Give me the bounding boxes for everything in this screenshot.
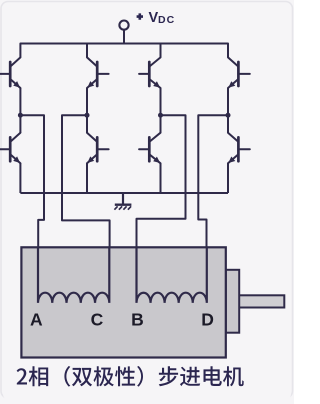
wire leg L1 mid vertical: [19, 88, 21, 133]
node L2: [85, 113, 90, 118]
wire top VDC rail: [20, 44, 228, 58]
transistor Q6: [87, 133, 109, 164]
motor shaft: [239, 295, 284, 307]
motor body: [21, 247, 225, 357]
transistor Q5: [0, 133, 20, 164]
wire leg R2 mid vertical: [227, 88, 229, 133]
transistor Q1: [0, 57, 20, 88]
transistor Q3: [139, 57, 160, 88]
node L1: [18, 113, 23, 118]
wire leg L2 mid vertical: [86, 88, 88, 133]
wire R1 emitter to ground rail: [160, 163, 162, 193]
transistor Q4: [228, 57, 250, 88]
transistor Q2: [87, 57, 109, 88]
svg-text:DC: DC: [158, 14, 175, 26]
wire node R1 to motor terminal B: [137, 115, 186, 248]
supply terminal circle: [119, 21, 128, 30]
wire supply stem: [123, 30, 125, 44]
ground: [114, 193, 131, 210]
motor end cap: [226, 270, 239, 333]
winding B-D (phase 2 coil): [137, 248, 207, 303]
svg-text:D: D: [201, 310, 214, 330]
wire node L1 to motor terminal A: [20, 115, 44, 248]
wire L1 emitter to ground rail: [19, 163, 21, 193]
caption: 2-phase (bipolar) stepper motor: [17, 366, 244, 387]
wire node L2 to motor terminal C: [62, 115, 110, 248]
svg-text:C: C: [91, 310, 104, 330]
wire node R2 to motor terminal D: [198, 115, 228, 248]
wire R2 emitter to ground rail: [227, 163, 229, 193]
svg-text:B: B: [131, 310, 144, 330]
wire leg R1 mid vertical: [160, 88, 162, 133]
transistor Q8: [228, 133, 250, 164]
wire ground rail: [20, 192, 228, 194]
svg-text:A: A: [30, 310, 43, 330]
winding A-C (phase 1 coil): [38, 248, 109, 303]
svg-text:V: V: [149, 10, 159, 26]
transistor Q7: [139, 133, 160, 164]
plus sign: [137, 13, 143, 19]
node R2: [226, 113, 231, 118]
wire L2 emitter to ground rail: [86, 163, 88, 193]
node R1: [158, 113, 163, 118]
